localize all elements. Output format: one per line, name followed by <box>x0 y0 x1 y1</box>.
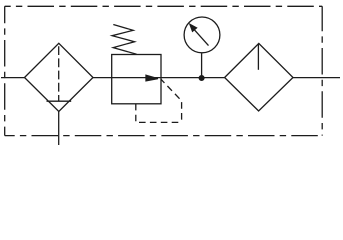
wire main flow line right segment <box>293 77 340 79</box>
pressure gauge G1 dial <box>184 17 220 53</box>
enclosure border left edge <box>4 6 6 135</box>
wire main flow line middle segment <box>93 77 225 79</box>
enclosure border top edge (dash-dot assembly boundary) <box>5 5 323 7</box>
filter F1 drain line <box>58 112 60 146</box>
regulator R1 spring <box>112 25 137 55</box>
filter F1 separator chord <box>47 100 72 102</box>
regulator R1 flow arrowhead <box>146 75 158 81</box>
wire main flow line left segment <box>1 77 25 79</box>
regulator R1 pilot line (dashed) <box>136 79 182 122</box>
enclosure border bottom edge <box>5 135 323 137</box>
enclosure border right edge <box>321 6 323 135</box>
filter F1 dashed centerline <box>58 46 60 101</box>
lubricator L1 drip line <box>257 44 259 70</box>
pressure gauge G1 needle arrowhead <box>190 24 197 31</box>
junction node <box>199 76 204 81</box>
wire gauge stem <box>201 53 203 77</box>
lubricator L1 body <box>225 43 293 111</box>
filter F1 body <box>25 43 94 111</box>
regulator R1 body <box>112 55 161 104</box>
pressure gauge G1 needle <box>194 29 209 46</box>
